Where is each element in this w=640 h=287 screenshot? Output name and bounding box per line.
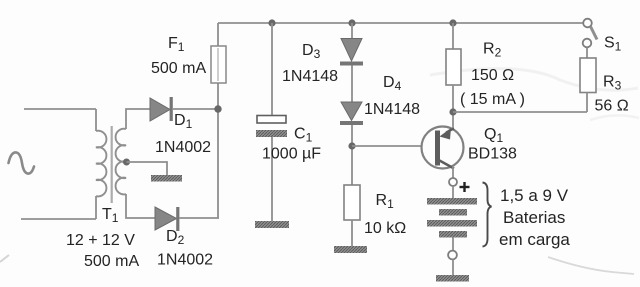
polarity marker + (460, 182, 470, 192)
resistor R3 (580, 58, 596, 93)
resistor R2 (446, 49, 461, 85)
wire base (352, 145, 422, 147)
svg-text:1,5 a 9 V: 1,5 a 9 V (500, 186, 569, 205)
ground battery (436, 275, 469, 282)
wire primary left vertical top (95, 109, 97, 131)
svg-text:Baterias: Baterias (503, 208, 565, 227)
capacitor C1 (256, 116, 287, 138)
wire D3-D4 (351, 66, 353, 103)
wire R1 bottom (351, 220, 353, 246)
svg-text:56 Ω: 56 Ω (595, 98, 629, 115)
svg-text:10 kΩ: 10 kΩ (364, 220, 406, 237)
diode D4 (340, 102, 363, 125)
wire top rail (218, 22, 583, 24)
wire C1 bottom (271, 137, 273, 221)
wire S1-R3 (586, 48, 588, 59)
node base junction (348, 142, 355, 149)
diode D2 (155, 207, 179, 231)
wire battery bottom (452, 238, 454, 251)
wire collector lead (452, 166, 454, 178)
svg-text:1N4148: 1N4148 (282, 68, 338, 85)
node D3 top (348, 19, 355, 26)
resistor R1 (344, 185, 360, 220)
transformer T1 secondary winding (116, 129, 126, 195)
svg-text:BD138: BD138 (468, 146, 517, 163)
ground R1 (334, 246, 367, 253)
wire rectified column (217, 23, 219, 218)
wire primary bottom (21, 218, 96, 220)
svg-text:500 mA: 500 mA (151, 60, 206, 77)
transformer T1 core (111, 126, 113, 203)
svg-text:150 Ω: 150 Ω (471, 67, 514, 84)
node R2 top (449, 19, 456, 26)
svg-text:500 mA: 500 mA (84, 253, 139, 270)
wire R2 bottom (452, 85, 454, 130)
svg-text:1N4002: 1N4002 (155, 139, 211, 156)
node center tap (123, 159, 130, 166)
node C1 top (268, 19, 275, 26)
wire emitter row (453, 111, 587, 113)
wire D1 cathode (173, 108, 218, 110)
node emitter junction (449, 108, 456, 115)
ground center tap (151, 175, 182, 182)
brace batteries (483, 183, 492, 247)
transformer T1 primary winding (96, 131, 106, 197)
node battery bottom terminal (448, 251, 457, 260)
transistor Q1 (422, 127, 464, 169)
wire D2 cathode (179, 217, 219, 219)
wire to ground (452, 260, 454, 276)
svg-text:12 + 12 V: 12 + 12 V (66, 232, 135, 249)
node D1-F1 junction (214, 105, 221, 112)
wire R3 bottom (586, 93, 588, 113)
wire secondary bottom lead (126, 194, 155, 218)
wire primary top (24, 108, 96, 110)
wire C1 top (271, 23, 273, 116)
wire R2 top (452, 23, 454, 49)
diode D3 (340, 39, 363, 66)
node collector terminal (449, 178, 457, 186)
wire primary left vertical bottom (95, 196, 97, 219)
wire secondary top lead (126, 109, 150, 129)
wire battery top (452, 186, 454, 198)
battery cells (427, 198, 477, 238)
svg-text:1000 µF: 1000 µF (262, 146, 321, 163)
switch S1 (583, 19, 597, 48)
svg-text:( 15 mA ): ( 15 mA ) (460, 91, 525, 108)
fuse F1 (211, 46, 226, 83)
wire center tap (127, 162, 168, 175)
ground C1 (255, 221, 289, 228)
svg-text:1N4002: 1N4002 (157, 252, 213, 269)
wire D3 top (351, 23, 353, 39)
svg-text:em carga: em carga (499, 230, 570, 249)
wire D4-R1 (351, 125, 353, 185)
diode D1 (150, 97, 173, 121)
AC source sine symbol (9, 152, 35, 173)
svg-text:1N4148: 1N4148 (364, 101, 420, 118)
